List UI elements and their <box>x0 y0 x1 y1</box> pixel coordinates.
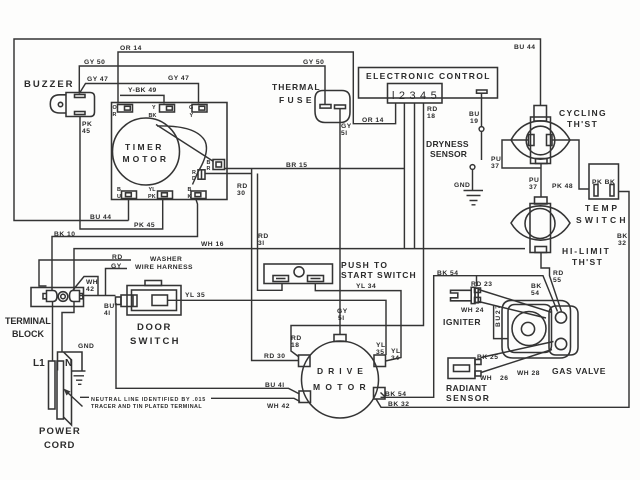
wire GY 51 (thermal fuse to drive motor) <box>339 109 341 335</box>
svg-text:PUSH TO: PUSH TO <box>341 260 388 270</box>
timer top connector O/R <box>118 105 133 113</box>
wire RD 55 (hi-limit to gas valve) <box>541 253 562 312</box>
igniter fork <box>451 290 472 301</box>
svg-text:BUZZER: BUZZER <box>24 79 75 90</box>
wire WH 42 (terminal pin jog) <box>73 277 116 296</box>
wire Y-BK 49 (to timer Y pin) <box>120 95 164 103</box>
svg-text:BK 25: BK 25 <box>477 354 498 361</box>
svg-text:K: K <box>188 194 192 200</box>
power cord N blade <box>57 361 64 419</box>
wire WH 16 (terminal block to hi-limit area) <box>74 249 525 290</box>
temp switch box <box>589 164 619 199</box>
svg-text:D: D <box>192 176 196 182</box>
door switch outer box <box>127 286 181 316</box>
wire EC pin 4 vertical <box>414 104 416 249</box>
drive motor upper-left pin <box>299 355 311 367</box>
svg-text:POWER: POWER <box>39 426 81 437</box>
svg-text:5l: 5l <box>341 130 348 137</box>
svg-text:Y-BK 49: Y-BK 49 <box>128 87 157 94</box>
svg-text:RD: RD <box>291 335 302 342</box>
wire YL 35 (door switch to drive motor) <box>168 300 387 355</box>
svg-text:DRYNESS: DRYNESS <box>426 139 469 149</box>
svg-text:PK 45: PK 45 <box>134 222 155 229</box>
svg-text:GY: GY <box>337 308 348 315</box>
gas valve outer body <box>502 301 571 359</box>
svg-text:U: U <box>117 194 121 200</box>
svg-text:PK 48: PK 48 <box>552 183 573 190</box>
svg-text:BLOCK: BLOCK <box>12 329 44 339</box>
wire temp switch to BK 32 right side down to drive motor <box>376 192 629 408</box>
svg-text:32: 32 <box>618 240 626 247</box>
svg-text:35: 35 <box>376 349 384 356</box>
timer RD connector <box>198 170 205 179</box>
wire OR 14 (timer R pin to electronic control pin 2) <box>118 52 396 124</box>
svg-text:WIRE HARNESS: WIRE HARNESS <box>135 264 193 271</box>
radiant sensor box <box>448 358 475 379</box>
svg-text:TERMINAL: TERMINAL <box>5 316 51 326</box>
svg-text:RD: RD <box>553 270 564 277</box>
temp switch right pin <box>610 185 614 197</box>
wire RD (washer harness) <box>39 260 131 286</box>
gas valve top terminal <box>555 312 566 323</box>
wire BR 15 (timer BR connector to pin3 vertical) <box>225 168 405 170</box>
wire GY 50 (buzzer to thermal fuse) <box>79 66 325 105</box>
svg-text:19: 19 <box>470 118 478 125</box>
wire PK 45 (buzzer bottom to timer PK pin) <box>80 117 163 230</box>
svg-text:G: G <box>189 105 193 111</box>
svg-text:NEUTRAL LINE IDENTIFIED BY .01: NEUTRAL LINE IDENTIFIED BY .015 <box>91 397 206 403</box>
svg-text:55: 55 <box>553 277 561 284</box>
svg-text:BK 54: BK 54 <box>437 270 458 277</box>
svg-text:42: 42 <box>86 286 94 293</box>
door switch top tab <box>145 281 162 286</box>
svg-text:PU: PU <box>491 156 501 163</box>
svg-text:BU 4l: BU 4l <box>265 382 285 389</box>
svg-text:HI-LIMIT: HI-LIMIT <box>562 246 611 256</box>
door switch left pin <box>121 295 137 307</box>
hi-limit thermostat slab <box>530 204 551 253</box>
svg-text:BU 44: BU 44 <box>514 44 535 51</box>
svg-text:OR 14: OR 14 <box>120 45 142 52</box>
svg-text:TH'ST: TH'ST <box>567 119 598 129</box>
svg-text:GND: GND <box>454 182 470 189</box>
svg-text:BU: BU <box>469 111 480 118</box>
node dryness sensor electrode circle <box>470 165 475 170</box>
svg-text:R: R <box>207 166 211 172</box>
svg-text:WH 16: WH 16 <box>201 241 224 248</box>
svg-text:34: 34 <box>391 355 399 362</box>
push-to-start button circle <box>294 267 304 277</box>
wire BK 25 (radiant sensor to gas valve) <box>481 342 554 358</box>
timer bottom connector B/K <box>191 191 206 199</box>
svg-text:WH 42: WH 42 <box>267 403 290 410</box>
svg-text:GY 50: GY 50 <box>84 59 105 66</box>
wire WH 42 (to drive motor, after note text) <box>211 398 300 401</box>
svg-text:START SWITCH: START SWITCH <box>341 270 417 280</box>
svg-text:BK: BK <box>531 283 542 290</box>
cycling thermostat ellipse <box>511 121 570 159</box>
wire N drop to power cord <box>62 302 74 353</box>
wire PU 37 (cycling left pin loop to bottom tab) <box>502 140 541 198</box>
svg-text:FUSE: FUSE <box>279 95 315 105</box>
cycling thermostat right pin <box>547 135 553 146</box>
cycling thermostat inner circle <box>526 126 555 155</box>
thermal fuse right pin <box>335 105 346 109</box>
temp switch left pin <box>594 185 598 197</box>
buzzer bottom pin <box>75 112 86 115</box>
svg-text:18: 18 <box>427 113 435 120</box>
cycling thermostat top tab <box>534 106 547 122</box>
wire RD 31 (to push-to-start switch) <box>258 174 283 291</box>
svg-text:RD: RD <box>427 106 438 113</box>
svg-text:N: N <box>65 358 72 369</box>
svg-text:RD: RD <box>237 183 248 190</box>
svg-text:TIMER: TIMER <box>125 142 164 152</box>
svg-text:OR 14: OR 14 <box>362 117 384 124</box>
svg-text:GAS VALVE: GAS VALVE <box>552 366 606 376</box>
wire BK 10 (timer BK pin down, left to terminal block L1 pin) <box>52 200 198 291</box>
svg-text:BU: BU <box>104 303 115 310</box>
terminal block right pin <box>70 291 83 302</box>
buzzer left lobe <box>50 95 66 113</box>
cycling thermostat left pin <box>529 135 535 146</box>
svg-text:TEMP: TEMP <box>585 203 620 213</box>
wire BU 19 (EC to dryness sensor) <box>481 94 483 160</box>
timer cam squiggle <box>156 125 214 185</box>
svg-text:BK: BK <box>617 233 628 240</box>
svg-text:SENSOR: SENSOR <box>430 149 467 159</box>
svg-text:B: B <box>188 187 192 193</box>
svg-text:BK: BK <box>149 113 157 119</box>
svg-text:GY 50: GY 50 <box>303 59 324 66</box>
svg-text:RD: RD <box>112 254 123 261</box>
timer bottom connector YL/PK <box>158 191 173 199</box>
buzzer top pin <box>75 95 86 98</box>
svg-text:L1: L1 <box>33 358 45 369</box>
svg-text:RD 30: RD 30 <box>264 353 285 360</box>
svg-text:Y: Y <box>190 113 194 119</box>
wire BU 41 (door switch to drive motor) <box>116 303 300 394</box>
wire EC pin 3 vertical <box>403 104 405 249</box>
push-to-start switch box <box>264 264 333 284</box>
wire RD 18 (EC pin 5 to drive motor) <box>291 104 424 358</box>
timer BR connector <box>213 160 225 170</box>
svg-text:Y: Y <box>152 105 156 111</box>
drive motor top pin <box>334 335 346 342</box>
electronic control box <box>359 68 498 99</box>
thermal fuse left pin <box>320 105 331 109</box>
svg-text:ELECTRONIC CONTROL: ELECTRONIC CONTROL <box>366 71 491 81</box>
push-to-start right tab <box>308 276 324 282</box>
timer bottom connector B/U <box>122 191 137 199</box>
timer motor circle <box>113 118 180 185</box>
svg-text:WH: WH <box>86 279 98 286</box>
svg-text:YL: YL <box>376 342 386 349</box>
door switch inner box <box>132 290 177 311</box>
hi-limit thermostat top tab <box>535 197 548 204</box>
buzzer lobe hole <box>58 102 62 106</box>
svg-text:IGNITER: IGNITER <box>443 317 481 327</box>
svg-text:3l: 3l <box>258 240 265 247</box>
svg-text:BR 15: BR 15 <box>286 162 307 169</box>
node BU19 connector circle <box>479 127 484 132</box>
electronic control 12345 box <box>388 84 443 104</box>
svg-text:BK 32: BK 32 <box>388 401 409 408</box>
svg-text:5l: 5l <box>338 315 345 322</box>
wire WH 24 (igniter to gas valve) <box>479 302 547 319</box>
wire BU 44 (timer BU pin, left border, top line, down to cycling thermostat) <box>14 39 541 221</box>
svg-text:37: 37 <box>529 184 537 191</box>
wire igniter to BK54 line <box>476 276 478 287</box>
svg-text:BU 44: BU 44 <box>90 214 111 221</box>
drive motor lower-right pin <box>374 388 386 400</box>
terminal block left pin <box>43 291 57 302</box>
svg-text:B: B <box>117 187 121 193</box>
push-to-start left tab <box>273 276 289 282</box>
svg-text:BK 54: BK 54 <box>385 391 406 398</box>
wire RD 30 (timer to drive motor) <box>206 169 299 361</box>
svg-text:YL: YL <box>149 187 157 193</box>
svg-text:30: 30 <box>237 190 245 197</box>
igniter connector bars <box>471 287 475 303</box>
terminal block <box>31 288 84 307</box>
timer top connector Y/BK <box>160 105 175 113</box>
svg-text:YL 34: YL 34 <box>356 283 376 290</box>
svg-text:DRIVE: DRIVE <box>317 366 368 376</box>
neutral note callout arrow <box>67 392 89 407</box>
svg-text:RD: RD <box>258 233 269 240</box>
svg-text:WH 24: WH 24 <box>461 307 484 314</box>
wire BU 27 (down into gas valve) <box>494 306 508 339</box>
power cord sheath <box>64 352 72 425</box>
svg-text:26: 26 <box>500 375 508 382</box>
svg-text:TH'ST: TH'ST <box>572 257 603 267</box>
svg-text:18: 18 <box>291 342 299 349</box>
radiant sensor inner bar <box>454 365 470 372</box>
svg-text:WH: WH <box>480 375 492 382</box>
gas valve terminal plate <box>549 306 578 355</box>
ground power cord <box>72 371 86 384</box>
svg-text:GY 47: GY 47 <box>168 75 189 82</box>
thermal fuse body <box>315 91 350 123</box>
svg-text:GY: GY <box>111 263 122 270</box>
svg-text:THERMAL: THERMAL <box>272 82 321 92</box>
svg-text:PK: PK <box>148 194 156 200</box>
svg-text:CYCLING: CYCLING <box>559 108 607 118</box>
hi-limit thermostat ellipse <box>511 206 570 240</box>
wire GY (washer harness) <box>106 269 128 296</box>
svg-text:PK BK: PK BK <box>592 179 615 186</box>
svg-text:MOTOR: MOTOR <box>123 154 169 164</box>
terminal block center ring <box>58 292 68 302</box>
svg-text:YL 35: YL 35 <box>185 292 205 299</box>
svg-text:TRACER AND TIN PLATED TERMINAL: TRACER AND TIN PLATED TERMINAL <box>91 404 202 410</box>
wire cycling thermostat to temp switch <box>552 140 590 189</box>
svg-text:l 2 3 4 5: l 2 3 4 5 <box>392 90 437 102</box>
svg-text:GY: GY <box>341 123 352 130</box>
svg-text:45: 45 <box>82 128 90 135</box>
svg-text:PK: PK <box>82 121 92 128</box>
svg-text:DOOR: DOOR <box>137 322 172 333</box>
wire GY 47 (buzzer to timer G pin) <box>79 84 198 104</box>
svg-text:4l: 4l <box>104 310 111 317</box>
radiant sensor tabs <box>475 360 481 365</box>
wire WH 26 (radiant sensor to gas valve) <box>481 350 552 373</box>
hi-limit thermostat inner circle <box>525 209 555 239</box>
svg-text:GND: GND <box>78 343 94 350</box>
svg-text:BU27: BU27 <box>495 304 502 328</box>
wire BK 54 (drive motor up and over to gas valve) <box>381 276 558 398</box>
gas valve coil circle <box>512 312 546 346</box>
svg-text:MOTOR: MOTOR <box>313 382 371 392</box>
drive motor right pin <box>374 355 386 367</box>
svg-text:SWITCH: SWITCH <box>130 336 181 347</box>
svg-text:RADIANT: RADIANT <box>446 383 487 393</box>
svg-text:SWITCH: SWITCH <box>576 215 629 225</box>
wire YL 34 (push-to-start to drive motor) <box>315 284 401 362</box>
svg-text:WH 28: WH 28 <box>517 370 540 377</box>
hi-limit thermostat bottom tab <box>535 247 547 253</box>
ground dryness sensor <box>464 170 484 205</box>
cycling thermostat slab <box>531 117 551 164</box>
drive motor lower-left pin <box>299 391 311 403</box>
svg-text:RD 23: RD 23 <box>471 281 492 288</box>
svg-text:WASHER: WASHER <box>150 256 182 263</box>
svg-text:GY 47: GY 47 <box>87 76 108 83</box>
svg-text:PU: PU <box>529 177 539 184</box>
svg-text:SENSOR: SENSOR <box>446 393 490 403</box>
svg-text:YL: YL <box>391 348 401 355</box>
power cord N box <box>58 352 83 371</box>
wire L1 drop to power cord <box>52 302 54 362</box>
drive motor circle <box>302 341 379 418</box>
timer top connector G/Y <box>192 105 207 113</box>
svg-text:BK 10: BK 10 <box>54 231 75 238</box>
wire RD 23 (igniter to gas valve) <box>479 290 553 313</box>
timer box <box>112 103 228 200</box>
svg-text:O: O <box>113 105 117 111</box>
svg-text:54: 54 <box>531 290 539 297</box>
buzzer body <box>66 93 95 117</box>
cycling thermostat bottom tab <box>536 159 548 164</box>
gas valve inner box <box>508 305 552 353</box>
svg-text:37: 37 <box>491 163 499 170</box>
power cord L1 blade <box>49 361 56 409</box>
gas valve center hole <box>521 322 534 335</box>
gas valve bottom terminal <box>555 338 566 349</box>
svg-text:R: R <box>113 112 117 118</box>
door switch contact rect <box>152 295 168 306</box>
svg-text:CORD: CORD <box>44 440 75 451</box>
electronic control cap symbol <box>477 90 488 93</box>
